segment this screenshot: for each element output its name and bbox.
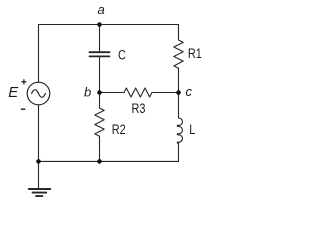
svg-text:E: E bbox=[8, 84, 19, 101]
svg-text:a: a bbox=[98, 2, 105, 17]
svg-text:R1: R1 bbox=[188, 46, 202, 62]
svg-text:R2: R2 bbox=[112, 122, 126, 138]
svg-text:b: b bbox=[84, 84, 91, 99]
svg-text:L: L bbox=[189, 122, 195, 138]
svg-text:C: C bbox=[118, 47, 126, 63]
svg-text:c: c bbox=[186, 84, 193, 99]
svg-text:R3: R3 bbox=[132, 101, 146, 117]
